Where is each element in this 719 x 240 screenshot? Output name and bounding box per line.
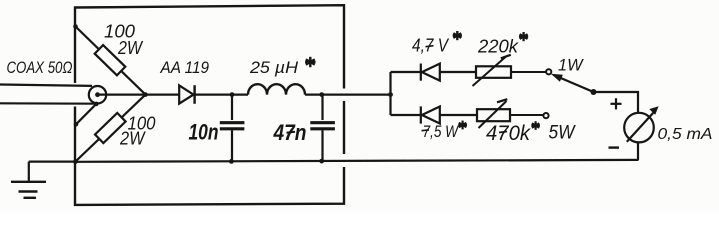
switch blade xyxy=(556,76,594,92)
bottom rail wire xyxy=(76,160,639,162)
shield box enclosure xyxy=(75,5,344,205)
asterisk star 25uH xyxy=(305,57,315,67)
svg-text:7,5 W: 7,5 W xyxy=(423,123,460,141)
switch blade arrowhead xyxy=(551,74,563,82)
wire switch common to meter top xyxy=(594,92,639,113)
junction ground rail xyxy=(73,159,78,164)
wire shield stub diagonal xyxy=(76,104,96,124)
resistor 220k adjust arrow xyxy=(473,57,507,87)
junction 47n top xyxy=(319,92,324,97)
asterisk star 470k xyxy=(531,121,540,130)
svg-text:0,5 mA: 0,5 mA xyxy=(658,126,713,143)
diode AA119 triangle xyxy=(179,85,193,103)
asterisk star 7,5W xyxy=(458,121,467,130)
label minus xyxy=(609,146,620,148)
wire inductor to right section xyxy=(305,93,391,95)
meter arrowhead xyxy=(649,106,658,115)
asterisk star 220k xyxy=(519,32,528,41)
resistor 100 2W bottom body xyxy=(95,113,126,143)
resistor 470k adjust arrow xyxy=(479,101,507,128)
wire bottom branch right xyxy=(510,114,543,116)
ground wire horizontal xyxy=(29,161,76,163)
diode zener 7.5V cathode bar xyxy=(420,106,422,123)
diode zener 4.7V cathode bar xyxy=(420,64,422,81)
svg-text:10n: 10n xyxy=(189,120,219,145)
junction 47n bottom xyxy=(319,159,324,164)
resistor 100 2W bottom diagonal wire xyxy=(76,95,146,162)
wire branch vertical xyxy=(389,72,391,115)
svg-text:2W: 2W xyxy=(119,129,146,149)
svg-text:AA 119: AA 119 xyxy=(160,59,209,77)
junction top resistor at box edge xyxy=(73,24,78,29)
coax cable top line xyxy=(0,85,92,86)
wire bottom branch middle xyxy=(440,114,477,116)
svg-text:220k: 220k xyxy=(477,36,520,57)
junction 10n top xyxy=(230,92,235,97)
label plus xyxy=(611,98,622,109)
wire node A to diode xyxy=(146,93,180,95)
seven crossbar 47n xyxy=(287,132,296,133)
svg-text:1W: 1W xyxy=(558,57,584,75)
svg-text:470k: 470k xyxy=(486,122,531,145)
meter 0.5mA circle xyxy=(624,113,654,143)
wire meter bottom xyxy=(637,142,639,160)
coax connector circle xyxy=(89,86,106,103)
resistor 470k arrow T-bar xyxy=(497,99,507,102)
ground symbol xyxy=(11,182,46,198)
switch common junction xyxy=(591,89,597,95)
diode zener 4.7V triangle xyxy=(422,64,440,81)
svg-text:25 µH: 25 µH xyxy=(249,58,299,77)
capacitor 47n plates xyxy=(310,123,335,129)
node A junction xyxy=(143,92,148,97)
wire diode to inductor xyxy=(196,93,249,95)
coax cable bottom line xyxy=(0,102,97,105)
junction shield stub top xyxy=(94,102,99,107)
ground stem xyxy=(28,162,30,182)
resistor 100 2W top body xyxy=(95,45,126,75)
seven crossbar 7,5W xyxy=(422,129,430,132)
capacitor 10n plates xyxy=(220,123,245,129)
junction 10n bottom xyxy=(229,159,234,164)
coax connector center pin dot xyxy=(95,92,100,97)
switch contact 1W xyxy=(546,69,551,74)
svg-text:2W: 2W xyxy=(117,38,144,58)
capacitor 10n top stem xyxy=(231,95,233,120)
meter arrow xyxy=(627,112,654,142)
diode AA119 cathode bar xyxy=(193,85,195,104)
resistor 470k body xyxy=(477,109,510,121)
diode zener 7.5V triangle xyxy=(422,107,440,124)
inductor 25uH xyxy=(248,84,305,94)
capacitor 10n bottom stem xyxy=(231,130,233,161)
capacitor 47n bottom stem xyxy=(321,130,323,161)
resistor 220k body xyxy=(476,66,511,78)
wire top branch right xyxy=(511,71,546,73)
wire connector to node A xyxy=(98,93,146,95)
asterisk star 4,7V xyxy=(453,31,462,40)
wire top branch left xyxy=(391,71,421,73)
resistor 220k arrow T-bar xyxy=(501,55,511,59)
junction branch split xyxy=(388,92,393,97)
junction shield stub bottom xyxy=(74,122,79,127)
resistor 100 2W top diagonal wire xyxy=(76,27,146,95)
wire top branch middle xyxy=(440,71,476,73)
seven crossbar 470k xyxy=(499,132,507,133)
wire bottom branch left xyxy=(391,114,421,116)
svg-text:5W: 5W xyxy=(549,122,576,144)
switch contact 5W xyxy=(543,113,548,118)
capacitor 47n top stem xyxy=(321,95,323,120)
seven crossbar 4,7V xyxy=(426,46,434,47)
svg-text:4,7 V: 4,7 V xyxy=(412,35,449,56)
svg-text:COAX 50Ω: COAX 50Ω xyxy=(7,59,73,77)
